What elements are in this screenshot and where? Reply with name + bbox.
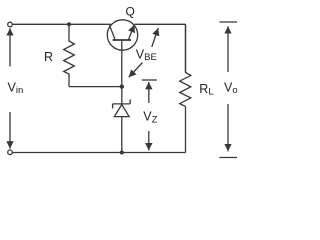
node bottom junction bbox=[120, 151, 124, 155]
tick Vo top bbox=[219, 21, 237, 23]
wire right vertical upper bbox=[185, 24, 187, 72]
transistor Q bbox=[107, 20, 137, 87]
terminal input top bbox=[8, 22, 13, 27]
node top junction bbox=[67, 22, 71, 26]
wire top rail left bbox=[13, 23, 111, 25]
arrow Vo up bbox=[227, 26, 229, 72]
resistor RL bbox=[180, 24, 191, 106]
arrow VBE up bbox=[152, 28, 158, 47]
arrow VBE down bbox=[129, 63, 143, 78]
wire right vertical lower bbox=[185, 107, 187, 153]
wire top rail right bbox=[134, 23, 185, 25]
svg-text:Vo: Vo bbox=[224, 80, 238, 96]
svg-text:R: R bbox=[44, 50, 53, 64]
svg-text:Q: Q bbox=[126, 5, 135, 19]
wire bottom rail bbox=[13, 152, 186, 154]
zener diode D bbox=[113, 87, 131, 153]
arrow Vin down bbox=[9, 112, 11, 149]
arrow VZ up bbox=[148, 82, 150, 103]
svg-text:RL: RL bbox=[199, 82, 213, 98]
arrow Vo down bbox=[227, 104, 229, 151]
wire R-to-base bbox=[69, 86, 122, 88]
arrow Vin up bbox=[9, 28, 11, 66]
tick Vo bottom bbox=[219, 157, 237, 159]
terminal input bottom bbox=[8, 150, 13, 155]
arrow VZ down bbox=[148, 131, 150, 150]
tick VZ top bbox=[142, 79, 157, 81]
svg-text:VZ: VZ bbox=[143, 110, 157, 126]
svg-text:VBE: VBE bbox=[136, 48, 157, 64]
svg-text:Vin: Vin bbox=[8, 80, 24, 96]
resistor R bbox=[64, 24, 75, 86]
node base junction bbox=[120, 84, 124, 88]
